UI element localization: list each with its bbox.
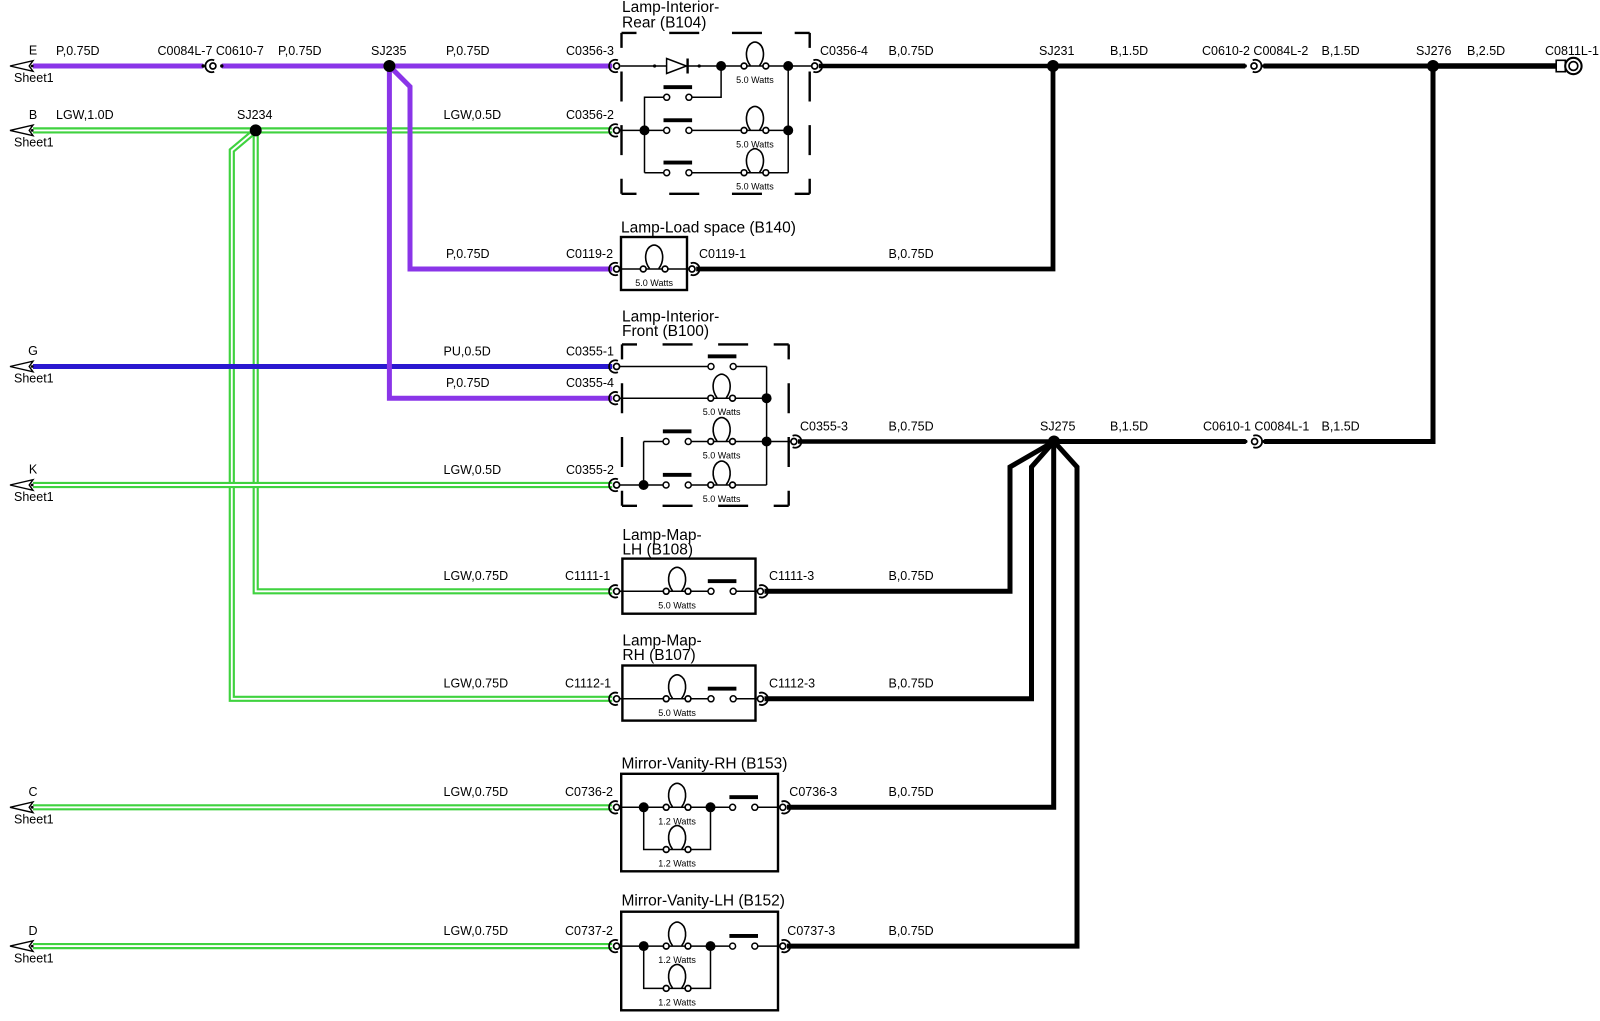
- svg-text:C0811L-1: C0811L-1: [1545, 44, 1599, 58]
- pin connector C0356-3: [609, 60, 619, 72]
- wire internal B100 row 4 (C0355-2): [619, 484, 766, 486]
- wire B,1.5D from SJ275 to inline connector C0610-1: [1054, 439, 1246, 444]
- svg-text:Mirror-Vanity-LH (B152): Mirror-Vanity-LH (B152): [622, 892, 785, 909]
- svg-text:SJ235: SJ235: [371, 44, 406, 58]
- wire B,1.5D from C0084L-2 to SJ276: [1264, 64, 1433, 69]
- lamp B100 bulb 3: [708, 461, 736, 488]
- junction node B152 left: [639, 941, 649, 951]
- svg-text:Sheet1: Sheet1: [14, 490, 54, 504]
- svg-text:SJ234: SJ234: [237, 108, 272, 122]
- svg-text:C0736-3: C0736-3: [789, 785, 837, 799]
- wire B,0.75D from SJ275 to C1112-3: [765, 442, 1055, 699]
- component Lamp-Load space (B140) enclosure: [621, 237, 687, 290]
- svg-text:B,1.5D: B,1.5D: [1322, 419, 1360, 433]
- svg-text:E: E: [29, 44, 37, 58]
- switch B104 S2: [664, 118, 693, 133]
- svg-text:C1112-1: C1112-1: [565, 677, 611, 691]
- ring terminal C0811L-1: [1556, 58, 1581, 74]
- wire internal B100 row 1 (C0355-1): [619, 366, 766, 368]
- svg-text:SJ231: SJ231: [1039, 44, 1074, 58]
- svg-text:C0355-2: C0355-2: [566, 463, 614, 477]
- svg-text:P,0.75D: P,0.75D: [56, 44, 100, 58]
- pin connector C0737-2: [609, 940, 619, 952]
- svg-text:P,0.75D: P,0.75D: [446, 247, 490, 261]
- svg-text:C1111-3: C1111-3: [769, 569, 814, 583]
- label component title Lamp-Interior-Rear (B104): [622, 0, 719, 31]
- switch B100 S1: [708, 354, 737, 369]
- svg-text:Lamp-Load space (B140): Lamp-Load space (B140): [621, 219, 796, 236]
- switch B104 S1: [664, 85, 693, 100]
- splice SJ234: [250, 124, 262, 136]
- svg-text:C0355-3: C0355-3: [800, 419, 848, 433]
- svg-text:SJ276: SJ276: [1416, 44, 1451, 58]
- svg-text:C0084L-7 C0610-7: C0084L-7 C0610-7: [158, 44, 264, 58]
- junction node B100 row4 left: [639, 480, 649, 490]
- splice SJ231: [1047, 60, 1059, 72]
- pin connector C0355-4: [609, 392, 619, 404]
- svg-text:Sheet1: Sheet1: [14, 813, 54, 827]
- wire B,0.75D from C0355-3 to SJ275: [798, 439, 1054, 444]
- wire LGW,0.75D splice SJ234 to C1112-1: [232, 130, 612, 698]
- junction node B153 left: [639, 802, 649, 812]
- svg-text:LGW,0.5D: LGW,0.5D: [444, 108, 502, 122]
- svg-text:K: K: [29, 463, 38, 477]
- off-sheet connector D (Sheet1): [10, 924, 54, 966]
- wire internal B104 left riser: [645, 97, 667, 172]
- svg-text:B,0.75D: B,0.75D: [889, 677, 934, 691]
- wire internal B100 row 3 (C0355-3): [644, 441, 791, 443]
- component Lamp-Interior-Front (B100) dashed enclosure: [622, 344, 789, 505]
- svg-text:B: B: [29, 108, 37, 122]
- svg-text:C0355-1: C0355-1: [566, 344, 614, 358]
- component Lamp-Map-RH (B107) enclosure: [622, 666, 755, 721]
- pin connector C0356-2: [609, 124, 619, 136]
- pin connector C0355-2: [609, 479, 619, 491]
- junction node B152 right: [706, 941, 716, 951]
- svg-text:B,2.5D: B,2.5D: [1467, 44, 1505, 58]
- pin connector C0736-2: [609, 801, 619, 813]
- svg-text:1.2 Watts: 1.2 Watts: [658, 859, 696, 869]
- wire internal B104 row 2: [619, 129, 788, 131]
- inline connector C0610-1 / C0084L-1: [1244, 440, 1266, 443]
- splice SJ235: [383, 60, 395, 72]
- wire internal B100 right riser: [766, 367, 768, 486]
- svg-text:P,0.75D: P,0.75D: [446, 44, 490, 58]
- svg-text:LGW,1.0D: LGW,1.0D: [56, 108, 114, 122]
- svg-text:B,0.75D: B,0.75D: [889, 419, 934, 433]
- off-sheet connector K (Sheet1): [10, 463, 54, 505]
- pin connector C1111-3: [757, 585, 767, 597]
- wire LGW,0.75D from connector D to C0737-2: [33, 943, 612, 949]
- switch B152: [729, 934, 758, 949]
- switch B107: [708, 687, 737, 702]
- wire B,0.75D from SJ275 to C0737-3: [787, 442, 1077, 947]
- svg-text:LGW,0.75D: LGW,0.75D: [444, 924, 509, 938]
- off-sheet connector C (Sheet1): [10, 785, 54, 827]
- lamp B153 bulb 2: [663, 826, 691, 853]
- label component title Lamp-Map-LH (B108): [622, 527, 701, 559]
- wire internal B153 row: [619, 806, 779, 808]
- svg-text:LGW,0.75D: LGW,0.75D: [444, 785, 509, 799]
- lamp B140 bulb: [640, 245, 668, 272]
- component Mirror-Vanity-RH (B153) enclosure: [621, 774, 778, 872]
- svg-text:C0736-2: C0736-2: [565, 785, 613, 799]
- component Lamp-Map-LH (B108) enclosure: [622, 559, 755, 614]
- switch B100 S3: [663, 473, 692, 488]
- splice SJ276: [1427, 60, 1439, 72]
- svg-text:5.0 Watts: 5.0 Watts: [736, 139, 774, 149]
- switch B104 S3: [664, 161, 693, 176]
- inline connector C0084L-7 / C0610-7: [202, 64, 224, 67]
- wire LGW,1.0D / LGW,0.5D from connector B to C0356-2: [33, 127, 612, 133]
- off-sheet connector G (Sheet1): [10, 344, 54, 386]
- svg-text:Sheet1: Sheet1: [14, 136, 54, 150]
- junction node B104 row2 left: [640, 125, 650, 135]
- pin connector C0356-4: [812, 60, 822, 72]
- svg-text:B,0.75D: B,0.75D: [889, 247, 934, 261]
- svg-text:LGW,0.75D: LGW,0.75D: [444, 569, 509, 583]
- pin connector C1112-3: [757, 693, 767, 705]
- wire internal B108: [619, 590, 757, 592]
- wire P,0.75D from C0610-7 through SJ235 to C0356-3: [222, 64, 612, 69]
- svg-text:SJ275: SJ275: [1040, 419, 1075, 433]
- pin connector C0736-3: [780, 801, 790, 813]
- wire P,0.75D from connector E to inline connector C0084L-7: [33, 64, 203, 69]
- svg-text:C0737-3: C0737-3: [787, 924, 835, 938]
- svg-text:B,0.75D: B,0.75D: [889, 924, 934, 938]
- svg-text:Rear (B104): Rear (B104): [622, 14, 706, 31]
- component Lamp-Interior-Rear (B104) dashed enclosure: [622, 33, 810, 194]
- wire LGW,0.75D from connector C to C0736-2: [33, 804, 612, 810]
- lamp B104 bulb 3: [741, 149, 769, 176]
- junction node B104 row2 right: [783, 125, 793, 135]
- inline connector C0610-2 / C0084L-2: [1244, 64, 1266, 67]
- wire B,0.75D from SJ275 to C0736-3: [787, 442, 1054, 808]
- svg-text:C0119-2: C0119-2: [566, 247, 613, 261]
- label component title Lamp-Interior-Front (B100): [622, 308, 719, 339]
- svg-text:Sheet1: Sheet1: [14, 71, 54, 85]
- wire internal B152 lower loop: [644, 946, 711, 988]
- pin connector C0119-2: [609, 263, 619, 275]
- switch B153: [729, 795, 758, 810]
- pin connector C0355-3: [791, 435, 801, 447]
- svg-text:D: D: [28, 924, 37, 938]
- wire P,0.75D from SJ235 down to C0119-2: [391, 67, 613, 269]
- wire P,0.75D from SJ235 down to C0355-4: [389, 66, 612, 398]
- lamp B100 bulb 2: [708, 418, 736, 445]
- lamp B100 bulb 1: [708, 374, 736, 401]
- svg-text:1.2 Watts: 1.2 Watts: [658, 955, 696, 965]
- svg-text:C: C: [28, 785, 37, 799]
- svg-text:C1112-3: C1112-3: [769, 677, 815, 691]
- svg-text:C0355-4: C0355-4: [566, 376, 614, 390]
- wire B,2.5D from SJ276 to ring terminal C0811L-1: [1433, 63, 1556, 68]
- svg-text:LH (B108): LH (B108): [622, 541, 693, 558]
- svg-text:P,0.75D: P,0.75D: [446, 376, 490, 390]
- svg-text:C0119-1: C0119-1: [699, 247, 746, 261]
- svg-text:C0356-2: C0356-2: [566, 108, 614, 122]
- svg-text:C0610-1 C0084L-1: C0610-1 C0084L-1: [1203, 419, 1309, 433]
- wire internal B107: [619, 698, 757, 700]
- svg-text:5.0 Watts: 5.0 Watts: [736, 182, 774, 192]
- svg-text:B,1.5D: B,1.5D: [1322, 44, 1360, 58]
- off-sheet connector B (Sheet1): [10, 108, 54, 150]
- svg-text:RH (B107): RH (B107): [622, 647, 695, 664]
- wire internal B104 row 1 (C0356-3 to C0356-4): [621, 65, 812, 67]
- svg-text:5.0 Watts: 5.0 Watts: [658, 600, 696, 610]
- svg-text:Sheet1: Sheet1: [14, 951, 54, 965]
- svg-text:B,1.5D: B,1.5D: [1110, 44, 1148, 58]
- lamp B107 bulb: [663, 675, 691, 702]
- diode D1 in B104: [653, 59, 701, 74]
- wire LGW,0.75D splice SJ234 to C1111-1: [256, 130, 613, 591]
- junction node B153 right: [706, 802, 716, 812]
- lamp B104 bulb 1: [741, 42, 769, 69]
- svg-text:B,0.75D: B,0.75D: [889, 44, 934, 58]
- svg-text:5.0 Watts: 5.0 Watts: [703, 494, 741, 504]
- pin connector C0737-3: [780, 940, 790, 952]
- svg-text:Front (B100): Front (B100): [622, 323, 709, 340]
- svg-text:5.0 Watts: 5.0 Watts: [635, 278, 673, 288]
- switch B108: [708, 579, 737, 594]
- svg-text:5.0 Watts: 5.0 Watts: [703, 407, 741, 417]
- wire internal B104 right riser: [787, 66, 789, 173]
- wire internal B152 row: [619, 945, 779, 947]
- svg-text:Mirror-Vanity-RH (B153): Mirror-Vanity-RH (B153): [622, 756, 788, 773]
- junction node B100 riser row3: [762, 437, 772, 447]
- wire B,1.5D from SJ231 to inline connector C0610-2: [1053, 64, 1245, 69]
- wire internal B153 lower loop: [644, 807, 711, 849]
- svg-text:LGW,0.5D: LGW,0.5D: [444, 463, 502, 477]
- svg-text:C0610-2 C0084L-2: C0610-2 C0084L-2: [1202, 44, 1308, 58]
- svg-text:C1111-1: C1111-1: [565, 569, 610, 583]
- svg-text:C0356-4: C0356-4: [820, 44, 868, 58]
- pin connector C0355-1: [609, 360, 619, 372]
- lamp B108 bulb: [663, 567, 691, 594]
- lamp B104 bulb 2: [741, 106, 769, 133]
- wire internal B140: [621, 268, 690, 270]
- pin connector C1111-1: [609, 585, 619, 597]
- component Mirror-Vanity-LH (B152) enclosure: [621, 912, 778, 1011]
- label component title Lamp-Map-RH (B107): [622, 632, 701, 664]
- junction node B100 riser row2: [762, 393, 772, 403]
- switch B100 S2: [663, 429, 692, 444]
- svg-text:PU,0.5D: PU,0.5D: [444, 344, 491, 358]
- splice SJ275: [1048, 436, 1060, 448]
- lamp B152 bulb 1: [663, 922, 691, 949]
- svg-text:C0737-2: C0737-2: [565, 924, 613, 938]
- wire B,0.75D from C0356-4 to SJ231: [819, 64, 1053, 69]
- junction node B104 row1-switch: [716, 61, 726, 71]
- svg-text:5.0 Watts: 5.0 Watts: [703, 451, 741, 461]
- wire PU,0.5D from connector G to C0355-1: [33, 364, 612, 369]
- wire B,0.75D from SJ275 to C1111-3: [765, 442, 1055, 592]
- svg-text:B,1.5D: B,1.5D: [1110, 419, 1148, 433]
- svg-text:LGW,0.75D: LGW,0.75D: [444, 677, 509, 691]
- wire B,0.75D from C0119-1 up through SJ231: [696, 66, 1053, 269]
- wire internal B100 row 2 (C0355-4): [619, 397, 766, 399]
- junction node B104 row1 right: [783, 61, 793, 71]
- svg-text:1.2 Watts: 1.2 Watts: [658, 997, 696, 1007]
- svg-text:B,0.75D: B,0.75D: [889, 785, 934, 799]
- svg-text:P,0.75D: P,0.75D: [278, 44, 322, 58]
- svg-text:B,0.75D: B,0.75D: [889, 569, 934, 583]
- svg-text:G: G: [28, 344, 38, 358]
- lamp B153 bulb 1: [663, 783, 691, 810]
- wire internal B104 switch branch: [689, 66, 721, 97]
- wire B,1.5D from C0084L-1 to SJ276 riser: [1264, 66, 1433, 442]
- off-sheet connector E (Sheet1): [10, 44, 54, 85]
- svg-text:5.0 Watts: 5.0 Watts: [736, 75, 774, 85]
- svg-text:C0356-3: C0356-3: [566, 44, 614, 58]
- svg-text:5.0 Watts: 5.0 Watts: [658, 708, 696, 718]
- pin connector C1112-1: [609, 693, 619, 705]
- wire internal B104 row 3: [645, 172, 789, 174]
- pin connector C0119-1: [689, 263, 699, 275]
- svg-text:Sheet1: Sheet1: [14, 372, 54, 386]
- wire internal B100 left riser: [643, 442, 645, 486]
- wire LGW,0.5D from connector K to C0355-2: [33, 482, 612, 488]
- lamp B152 bulb 2: [663, 964, 691, 991]
